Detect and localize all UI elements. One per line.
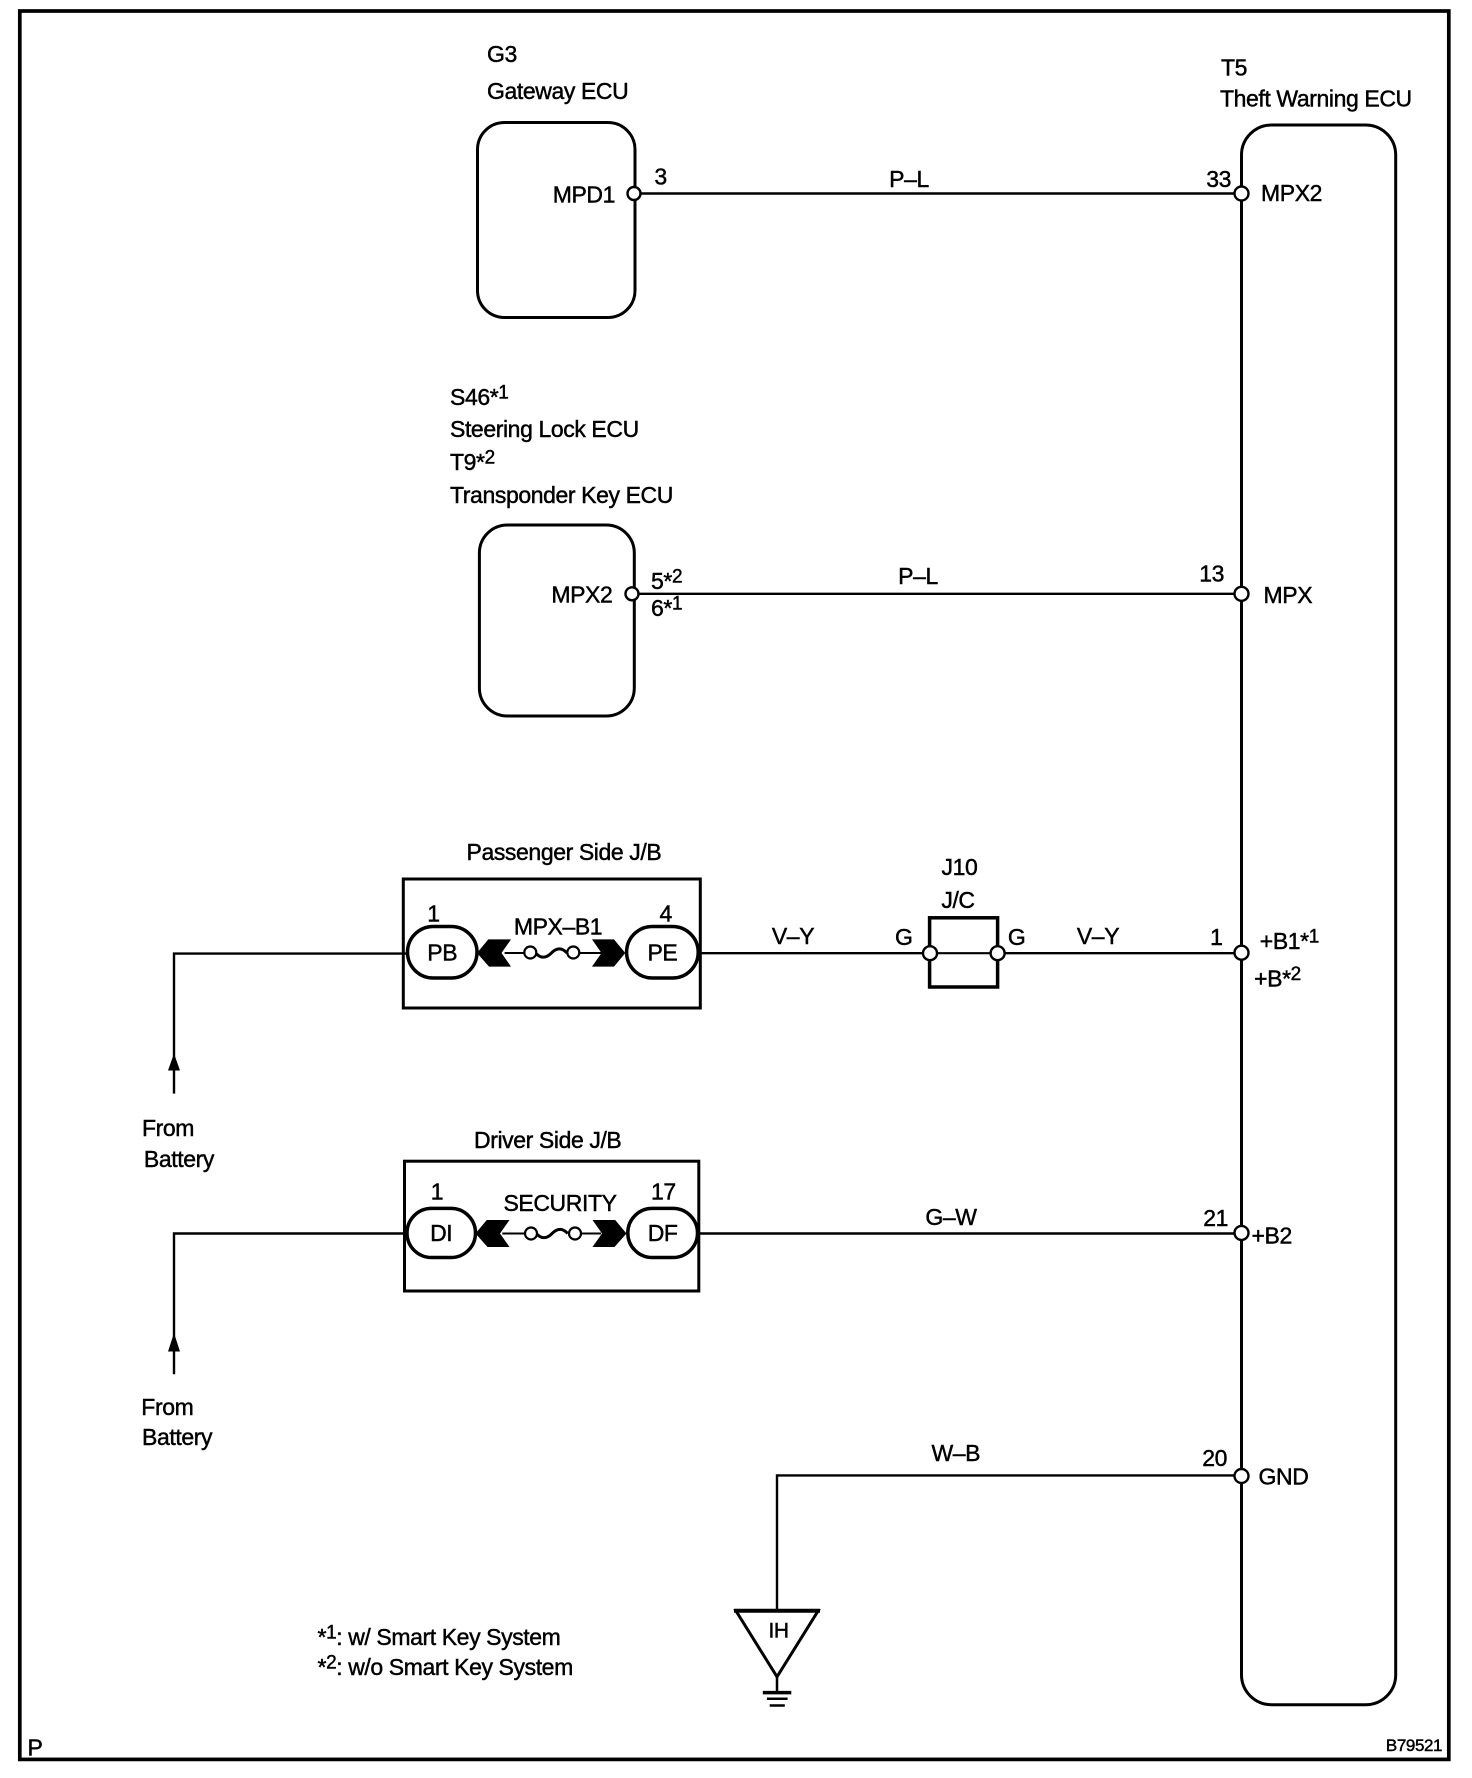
svg-text:1: 1 <box>1210 924 1222 950</box>
svg-text:13: 13 <box>1199 561 1224 587</box>
svg-text:DI: DI <box>430 1220 452 1246</box>
svg-text:17: 17 <box>651 1178 676 1204</box>
svg-text:*2: w/o Smart Key System: *2: w/o Smart Key System <box>318 1653 573 1681</box>
svg-text:+B2: +B2 <box>1252 1222 1292 1248</box>
svg-text:Theft Warning ECU: Theft Warning ECU <box>1220 86 1412 112</box>
svg-text:G–W: G–W <box>925 1204 977 1230</box>
svg-text:MPX–B1: MPX–B1 <box>514 914 602 940</box>
svg-text:33: 33 <box>1206 166 1231 192</box>
svg-text:From: From <box>142 1115 194 1141</box>
svg-text:T5: T5 <box>1221 55 1247 81</box>
svg-text:MPX2: MPX2 <box>1261 180 1322 206</box>
svg-text:MPD1: MPD1 <box>553 181 615 207</box>
svg-text:Steering Lock ECU: Steering Lock ECU <box>450 416 639 442</box>
svg-text:Battery: Battery <box>142 1424 213 1450</box>
svg-text:Driver Side J/B: Driver Side J/B <box>474 1127 621 1153</box>
svg-text:G3: G3 <box>487 41 517 67</box>
svg-text:V–Y: V–Y <box>1077 923 1119 949</box>
svg-text:3: 3 <box>654 164 666 190</box>
svg-text:PB: PB <box>427 940 457 966</box>
svg-text:Battery: Battery <box>144 1146 215 1172</box>
svg-text:4: 4 <box>659 901 672 927</box>
svg-text:P–L: P–L <box>898 563 938 589</box>
svg-text:P–L: P–L <box>889 166 929 192</box>
svg-text:*1: w/ Smart Key System: *1: w/ Smart Key System <box>318 1623 561 1651</box>
svg-text:IH: IH <box>768 1619 788 1642</box>
svg-text:MPX: MPX <box>1264 582 1313 608</box>
svg-text:B79521: B79521 <box>1386 1736 1442 1755</box>
svg-text:GND: GND <box>1259 1463 1309 1489</box>
svg-text:1: 1 <box>431 1178 443 1204</box>
svg-text:G: G <box>1008 924 1026 950</box>
svg-text:W–B: W–B <box>931 1440 980 1466</box>
svg-text:J10: J10 <box>942 854 978 880</box>
svg-text:21: 21 <box>1203 1205 1228 1231</box>
svg-text:DF: DF <box>648 1220 678 1246</box>
svg-text:P: P <box>28 1735 43 1761</box>
svg-text:Gateway ECU: Gateway ECU <box>487 78 628 104</box>
svg-text:MPX2: MPX2 <box>551 581 612 607</box>
svg-text:20: 20 <box>1202 1445 1227 1471</box>
svg-text:1: 1 <box>427 901 439 927</box>
svg-text:Transponder Key ECU: Transponder Key ECU <box>450 482 673 508</box>
svg-text:J/C: J/C <box>941 887 974 913</box>
svg-text:G: G <box>895 924 913 950</box>
svg-text:From: From <box>141 1394 193 1420</box>
svg-text:SECURITY: SECURITY <box>503 1190 616 1216</box>
svg-text:V–Y: V–Y <box>772 923 814 949</box>
svg-text:PE: PE <box>647 940 677 966</box>
svg-text:Passenger Side J/B: Passenger Side J/B <box>467 839 662 865</box>
